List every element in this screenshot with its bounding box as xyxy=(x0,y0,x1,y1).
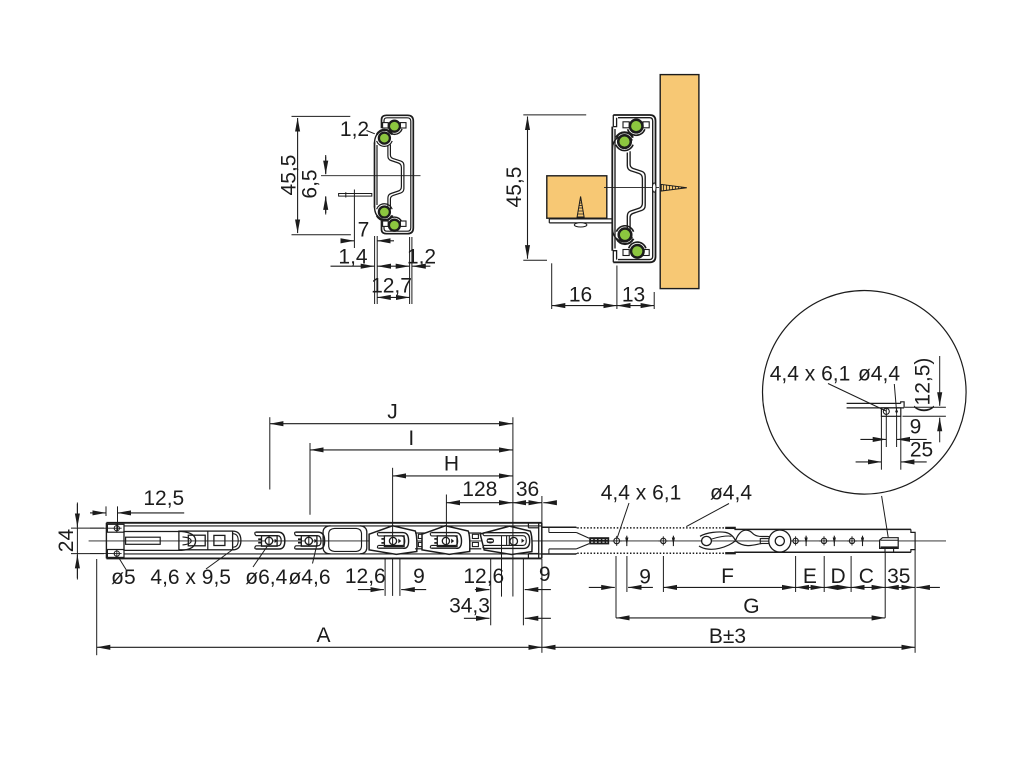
svg-text:1,2: 1,2 xyxy=(340,118,369,141)
inner rail xyxy=(734,528,911,530)
dimensions 16 and 13 xyxy=(552,263,655,309)
svg-text:I: I xyxy=(408,427,414,450)
wide winged slot E xyxy=(480,526,532,554)
svg-text:7: 7 xyxy=(358,219,370,242)
centerline xyxy=(604,186,659,188)
retainer blocks xyxy=(623,122,629,128)
dimension 1,4 and 1,2 bottom xyxy=(331,236,437,304)
svg-text:A: A xyxy=(316,624,330,647)
dimension 45,5 (right view) xyxy=(503,115,586,260)
detail magnifier circle xyxy=(763,291,967,538)
svg-text:45,5: 45,5 xyxy=(503,167,526,208)
oe5 holes xyxy=(114,526,119,531)
centerline xyxy=(89,540,946,542)
dimension cluster 12,6 / 9 (slot C) xyxy=(345,559,426,596)
dimension cluster 12,6 / 9 / 34,3 (slot E) xyxy=(449,536,551,626)
ball retainer blocks xyxy=(383,123,389,128)
dimension J xyxy=(270,401,513,490)
svg-text:34,3: 34,3 xyxy=(449,595,490,618)
labels 4,4 x 6,1 and oe4,4 above rail xyxy=(601,482,753,538)
middle member S xyxy=(627,153,642,230)
detail: rail end plan view xyxy=(847,402,901,404)
svg-text:4,4 x 6,1: 4,4 x 6,1 xyxy=(601,482,682,505)
svg-text:J: J xyxy=(387,401,398,424)
mounted cross-section view xyxy=(547,75,699,289)
svg-text:F: F xyxy=(721,565,734,588)
leader to rail clip xyxy=(882,496,889,537)
hole labels row xyxy=(111,543,330,590)
slot A xyxy=(256,532,285,549)
dimension 12,7 xyxy=(371,275,412,298)
dimension G xyxy=(616,595,885,618)
centerline xyxy=(321,175,421,177)
ball bearings (green) xyxy=(389,121,400,132)
left end cap xyxy=(105,523,107,559)
bottom flange under shelf xyxy=(549,218,612,220)
extension line at outer rail end / B left xyxy=(541,496,543,523)
winged slot D xyxy=(422,526,470,555)
svg-text:12,6: 12,6 xyxy=(463,565,504,588)
latch lever xyxy=(702,536,712,545)
dimension B+-3 xyxy=(542,625,915,648)
svg-text:ø5: ø5 xyxy=(111,566,136,589)
shelf screw xyxy=(577,196,584,217)
svg-text:E: E xyxy=(803,565,817,588)
svg-text:25: 25 xyxy=(910,439,933,462)
svg-text:9: 9 xyxy=(910,416,922,439)
dimension 45,5 (left view) xyxy=(278,116,351,234)
svg-text:4,6 x 9,5: 4,6 x 9,5 xyxy=(150,566,231,589)
detail dimension (12,5) xyxy=(912,358,935,413)
dimension 128 xyxy=(446,478,512,545)
outer rail right end xyxy=(527,523,529,528)
cross-section view: slide profile xyxy=(321,115,421,233)
main rail side view xyxy=(89,523,946,559)
drawer member top hook xyxy=(613,115,616,127)
svg-text:12,6: 12,6 xyxy=(345,565,386,588)
front fork bracket xyxy=(124,532,196,551)
dimension I xyxy=(310,427,513,515)
svg-text:6,5: 6,5 xyxy=(299,169,322,198)
lock housing block xyxy=(179,531,233,550)
dimension 24 xyxy=(55,503,112,580)
detail: clip xyxy=(881,408,900,416)
shared extension line at slot E xyxy=(512,417,514,596)
hooks around balls xyxy=(616,132,633,137)
svg-text:ø4,6: ø4,6 xyxy=(288,566,330,589)
svg-text:9: 9 xyxy=(639,566,651,589)
svg-text:1,2: 1,2 xyxy=(407,246,436,269)
svg-text:9: 9 xyxy=(539,563,551,586)
connector piece 2 xyxy=(469,532,481,534)
slot B xyxy=(296,532,325,549)
dimension 7 xyxy=(341,190,394,249)
detail labels xyxy=(770,363,851,386)
capsule transition xyxy=(323,526,330,554)
outer rail top/bottom xyxy=(106,522,541,524)
dimension 6,5 xyxy=(299,155,326,215)
detail dimension 25 xyxy=(880,416,882,469)
middle rail member (S profile) xyxy=(388,146,402,209)
svg-text:4,4 x 6,1: 4,4 x 6,1 xyxy=(770,363,851,386)
outer rail member (right wall) xyxy=(382,115,414,233)
svg-text:12,5: 12,5 xyxy=(143,487,184,510)
svg-text:G: G xyxy=(743,595,759,618)
detail dimension 9 xyxy=(885,414,887,447)
rail holes xyxy=(614,538,620,544)
svg-text:35: 35 xyxy=(887,565,910,588)
solid ticks xyxy=(626,536,628,546)
svg-text:128: 128 xyxy=(462,478,497,501)
svg-text:13: 13 xyxy=(622,283,645,306)
rivet stop block xyxy=(589,537,609,544)
middle rail exposed section xyxy=(542,526,577,528)
svg-text:ø4,4: ø4,4 xyxy=(858,363,900,386)
dimension A xyxy=(97,559,542,655)
svg-text:12,7: 12,7 xyxy=(371,275,412,298)
dimension 9 (inner rail first hole) xyxy=(589,556,653,618)
svg-text:24: 24 xyxy=(55,529,78,553)
ball bearings xyxy=(630,120,643,133)
wood shelf (horizontal) xyxy=(547,176,607,218)
outer member right wall xyxy=(613,115,655,262)
svg-text:ø6,4: ø6,4 xyxy=(245,566,287,589)
svg-text:1,4: 1,4 xyxy=(338,246,368,269)
svg-text:36: 36 xyxy=(516,478,539,501)
svg-text:ø4,4: ø4,4 xyxy=(710,482,752,505)
inner rail member (left wall) xyxy=(374,143,376,208)
dimension 36 xyxy=(513,478,557,503)
svg-text:D: D xyxy=(831,565,846,588)
winged slot C xyxy=(369,526,417,555)
connector piece 1 xyxy=(415,532,427,534)
svg-text:B±3: B±3 xyxy=(709,625,746,648)
dimension 12,5 xyxy=(90,487,184,531)
svg-text:16: 16 xyxy=(569,283,592,306)
svg-text:H: H xyxy=(444,453,459,476)
svg-text:(12,5): (12,5) xyxy=(912,358,935,413)
svg-text:45,5: 45,5 xyxy=(278,155,301,196)
ball retainer dotted band xyxy=(577,527,734,529)
svg-text:C: C xyxy=(859,565,874,588)
rear clip xyxy=(880,538,899,549)
drawer member left wall xyxy=(611,127,613,251)
dimensions F E D C 35 xyxy=(663,550,940,653)
wall screw xyxy=(652,183,656,192)
dimension H xyxy=(393,453,513,545)
mounting tab xyxy=(339,194,372,197)
wood panel (vertical) xyxy=(660,75,699,289)
svg-text:9: 9 xyxy=(413,565,425,588)
label 1,2 top xyxy=(340,118,375,141)
